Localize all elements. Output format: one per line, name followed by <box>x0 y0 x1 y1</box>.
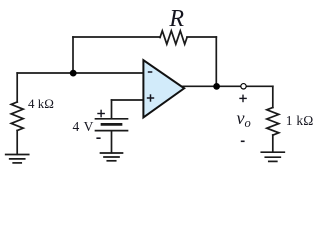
svg-text:R: R <box>168 6 184 32</box>
svg-text:4 kΩ: 4 kΩ <box>28 96 54 111</box>
svg-text:4 V: 4 V <box>73 119 94 134</box>
svg-text:1 kΩ: 1 kΩ <box>286 113 314 128</box>
svg-text:v: v <box>237 108 245 128</box>
svg-text:o: o <box>245 116 251 130</box>
